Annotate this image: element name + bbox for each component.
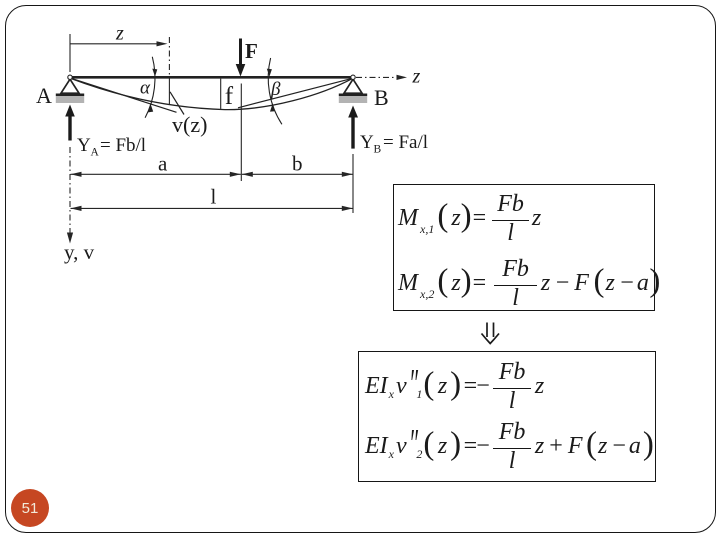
label z (top) xyxy=(115,23,124,45)
angle arc alpha xyxy=(145,57,157,118)
dash-dot section line at z xyxy=(168,37,170,76)
beam AB xyxy=(69,76,354,79)
y,v axis arrowhead xyxy=(67,233,73,244)
double arrow down between boxes xyxy=(482,323,500,344)
label YA = Fb/l xyxy=(77,135,146,159)
pin A xyxy=(68,75,72,79)
svg-text:l: l xyxy=(211,185,217,209)
dimension l xyxy=(71,206,353,211)
label a xyxy=(158,152,168,176)
z axis arrowhead xyxy=(397,75,408,80)
svg-text:B: B xyxy=(374,144,382,156)
label F xyxy=(245,39,258,63)
label y, v xyxy=(64,240,95,264)
label z (right) xyxy=(412,66,421,88)
angle arc beta xyxy=(267,58,282,124)
dimension z xyxy=(71,41,168,46)
svg-text:v(z): v(z) xyxy=(172,112,207,137)
leader line for v(z) xyxy=(170,92,184,115)
svg-text:= Fb/l: = Fb/l xyxy=(100,135,146,156)
svg-text:Y: Y xyxy=(360,132,374,153)
dimension a xyxy=(71,172,241,177)
axis line above support A xyxy=(69,34,71,72)
dimension b xyxy=(242,172,353,177)
label A xyxy=(36,83,52,108)
svg-text:z: z xyxy=(412,66,421,88)
label l xyxy=(211,185,217,209)
tangent line at A xyxy=(70,78,177,112)
label b xyxy=(292,152,303,176)
tangent line at B xyxy=(238,78,353,108)
deflection curve v(z) xyxy=(70,78,353,109)
equation Mx2 xyxy=(398,256,660,310)
y,v axis dash-dot xyxy=(69,147,71,236)
reaction YA arrow xyxy=(65,105,75,141)
svg-text:α: α xyxy=(140,78,151,99)
svg-text:= Fa/l: = Fa/l xyxy=(383,132,428,153)
label alpha xyxy=(140,78,151,99)
extension line at F position xyxy=(240,84,242,182)
svg-text:z: z xyxy=(115,23,124,45)
svg-text:β: β xyxy=(270,79,281,100)
force F arrow xyxy=(236,39,246,77)
z axis right of B xyxy=(356,76,401,78)
svg-text:a: a xyxy=(158,152,168,176)
page number badge xyxy=(11,489,49,527)
label beta xyxy=(270,79,281,100)
equation EIv1 xyxy=(365,359,544,413)
support B xyxy=(339,79,367,103)
deflection f measure line xyxy=(220,79,222,109)
reaction YB arrow xyxy=(348,106,358,149)
svg-text:B: B xyxy=(374,85,389,110)
equation EIv2 xyxy=(365,419,654,473)
label f xyxy=(225,83,234,110)
svg-text:Y: Y xyxy=(77,135,91,156)
svg-text:A: A xyxy=(36,83,52,108)
svg-text:A: A xyxy=(91,147,100,159)
support A xyxy=(56,79,84,103)
pin B xyxy=(351,75,355,79)
label v(z) xyxy=(172,112,207,137)
label YB = Fa/l xyxy=(360,132,428,156)
v(z) ordinate line xyxy=(168,78,170,105)
svg-text:f: f xyxy=(225,83,234,110)
equation box 2: EIv'' xyxy=(358,351,656,482)
svg-text:F: F xyxy=(245,39,258,63)
label B xyxy=(374,85,389,110)
extension line at B xyxy=(352,154,354,213)
equation Mx1 xyxy=(398,191,541,245)
equation box 1: bending moments xyxy=(393,184,655,311)
svg-text:b: b xyxy=(292,152,303,176)
svg-text:y, v: y, v xyxy=(64,240,95,264)
